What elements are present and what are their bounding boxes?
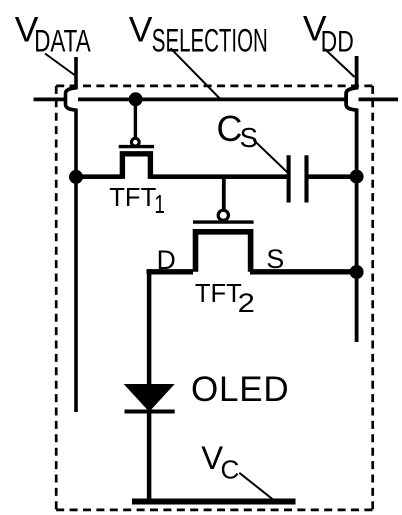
node: TFT1 source tap on data line	[69, 170, 83, 184]
wire: TFT2 source to V_DD line	[250, 269, 357, 274]
capacitor C_S left plate	[287, 155, 291, 202]
TFT2 gate contact circle	[218, 210, 228, 220]
svg-text:OLED: OLED	[191, 370, 290, 409]
TFT1 channel (source-drain bridge)	[122, 154, 150, 179]
wire: TFT1 drain to storage node (capacitor / TFT2 gate)	[152, 174, 288, 179]
svg-text:V: V	[129, 10, 153, 50]
wire: V_DD column line with hop over selection line	[346, 56, 357, 342]
wire: TFT2 drain to OLED branch	[149, 272, 193, 274]
wire: data line to TFT1 source	[76, 174, 121, 179]
svg-text:2: 2	[238, 289, 255, 319]
OLED diode triangle (anode)	[124, 384, 175, 412]
wire: common cathode electrode (V_C)	[132, 499, 296, 505]
wire: selection line left segment	[34, 98, 68, 102]
svg-text:DD: DD	[321, 26, 354, 59]
pixel boundary (dashed box)	[56, 85, 373, 88]
svg-text:C: C	[221, 454, 240, 484]
capacitor C_S right plate	[304, 155, 308, 202]
wire: V_DATA column line with hop over selection line	[66, 57, 77, 412]
TFT2 gate bar	[193, 220, 254, 223]
pointer line: V_SELECTION to selection line	[171, 48, 220, 98]
svg-text:SELECTION: SELECTION	[152, 22, 268, 58]
node: TFT1 gate tap on selection line	[129, 92, 143, 106]
pointer line: V_DATA to data line	[45, 54, 75, 76]
pointer line: C_S to capacitor	[254, 140, 288, 172]
node: capacitor tap on V_DD line	[350, 170, 364, 184]
svg-text:TFT: TFT	[109, 184, 156, 212]
svg-text:1: 1	[154, 189, 165, 219]
TFT2 gate lead wire	[222, 177, 226, 209]
svg-text:S: S	[240, 122, 258, 153]
node: TFT2 source tap on V_DD line	[350, 265, 364, 279]
pointer line: V_C to electrode	[239, 473, 273, 500]
wire: OLED cathode to bottom electrode	[147, 412, 152, 503]
TFT2 channel (source-drain bridge)	[196, 232, 251, 272]
pointer line: V_DD to V_DD line	[325, 49, 355, 77]
wire: selection line middle segment	[78, 98, 347, 102]
wire: OLED anode line	[147, 269, 152, 386]
TFT1 gate contact circle	[131, 138, 139, 146]
wire: selection line right segment	[359, 98, 399, 102]
svg-text:TFT: TFT	[195, 280, 242, 308]
TFT1 gate lead wire	[134, 99, 137, 138]
TFT1 gate bar	[119, 145, 154, 148]
svg-text:DATA: DATA	[34, 23, 91, 59]
wire: capacitor right plate to V_DD line	[309, 174, 357, 179]
svg-text:C: C	[217, 109, 243, 149]
OLED cathode bar	[125, 410, 175, 414]
